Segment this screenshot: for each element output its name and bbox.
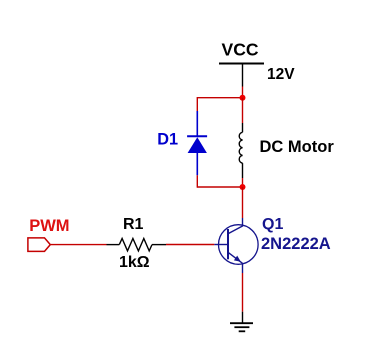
wire motor branch lower red — [242, 178, 244, 187]
svg-text:PWM: PWM — [29, 217, 69, 235]
node bottom junction — [240, 184, 246, 190]
power symbol VCC bar — [219, 63, 264, 65]
connector PWM tag — [28, 238, 50, 252]
wire emitter red — [242, 273, 244, 312]
diode D1 — [187, 111, 207, 175]
svg-text:12V: 12V — [267, 66, 295, 83]
wire bottom rail — [197, 186, 242, 188]
wire base red — [166, 244, 214, 246]
wire motor branch upper red — [242, 98, 244, 123]
wire VCC stub black — [242, 64, 244, 87]
inductor DC Motor coil — [239, 123, 242, 178]
node top junction — [240, 95, 246, 101]
wire collector red — [242, 187, 244, 218]
transistor Q1 — [214, 218, 258, 273]
ground — [230, 323, 253, 331]
resistor R1 — [107, 239, 167, 251]
wire PWM to resistor — [51, 244, 107, 246]
wire top rail — [197, 97, 242, 99]
svg-text:D1: D1 — [157, 130, 178, 148]
svg-text:DC Motor: DC Motor — [260, 138, 335, 156]
wire VCC stub red — [242, 87, 244, 98]
svg-text:VCC: VCC — [222, 40, 259, 60]
wire diode branch upper red — [196, 97, 198, 111]
wire diode branch lower red — [196, 175, 198, 187]
wire emitter black stub — [242, 312, 244, 323]
svg-text:1kΩ: 1kΩ — [119, 254, 150, 271]
svg-text:R1: R1 — [123, 216, 144, 233]
svg-text:Q1: Q1 — [262, 216, 283, 233]
svg-text:2N2222A: 2N2222A — [261, 235, 331, 253]
